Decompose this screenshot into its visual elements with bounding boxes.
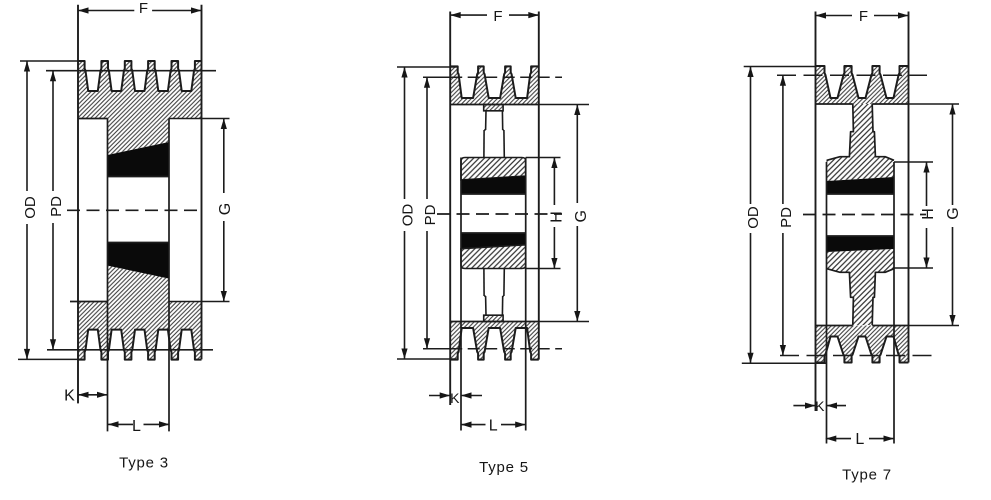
svg-text:K: K [815,398,825,414]
Type 3 PD line bottom [47,349,213,351]
Type 5 OD extension top [397,66,457,68]
svg-text:K: K [450,390,460,406]
svg-text:G: G [573,210,590,222]
dimension K (Type 7) [793,405,815,407]
Type 7 taper bush lower (black) [827,236,895,252]
dimension H (Type 5) [526,157,561,159]
svg-text:PD: PD [778,207,795,228]
Type 3 hub hatch above taper bush [108,119,170,156]
pulley Type 7 rim and grooves (top) [816,66,909,104]
svg-text:PD: PD [48,196,65,217]
Type 7 outline edges [815,12,817,412]
Type 3 taper bush lower half (black) [108,243,170,279]
Type 3 centerline [67,209,203,211]
Type 3 hub hatch below taper bush [108,266,170,302]
svg-text:Type 7: Type 7 [842,467,892,484]
svg-text:PD: PD [422,204,439,225]
dimension G (Type 3) [223,119,225,194]
Type 7 web and hub hatch (top) [827,104,895,181]
svg-text:H: H [549,211,566,223]
Type 5 centerline [437,213,562,215]
svg-text:L: L [855,431,864,448]
dimension L (Type 7) [826,438,851,440]
dimension PD (Type 3) [52,71,54,191]
Type 5 stub under rim [484,105,503,111]
dimension OD (Type 7) [750,67,752,205]
Type 5 hub hatch top [461,158,526,180]
pulley Type 3 rim and grooves (bottom) [78,302,202,360]
pulley Type 7 rim and grooves (bottom) [816,326,909,363]
svg-text:L: L [132,418,141,435]
Type 3 taper bush upper half (black) [108,142,170,177]
dimension G (Type 7) [909,103,960,105]
svg-text:H: H [920,208,937,220]
dimension OD (Type 5) [404,67,406,199]
dimension H (Type 7) [894,161,933,163]
Type 5 taper bush upper (black) [461,176,526,194]
dimension F (Type 3) [78,10,134,12]
Type 7 web and hub hatch (bottom) [827,249,895,325]
svg-text:OD: OD [22,196,39,219]
Type 5 outline edges [449,12,451,406]
Type 5 OD extension bottom [397,358,457,360]
Type 7 bore edges [827,193,895,195]
dimension PD (Type 7) [782,75,784,204]
Type 3 OD extension bottom [18,358,83,360]
svg-text:OD: OD [745,206,762,229]
pulley Type 5 rim and grooves (top) [450,66,539,104]
Type 3 OD extension top [20,60,84,62]
Type 7 OD extension bottom [742,362,827,364]
Type 5 stub above bottom rim [484,315,503,321]
svg-text:F: F [139,0,148,17]
svg-text:Type 3: Type 3 [119,455,169,472]
dimension F (Type 7) [816,15,853,17]
dimension G (Type 5) [539,104,589,106]
Type 5 PD line top [423,76,450,78]
dimension F (Type 5) [450,14,487,16]
Type 3 PD line top [46,70,216,72]
svg-text:G: G [217,203,234,215]
dimension OD (Type 3) [26,61,28,191]
svg-text:K: K [64,387,75,404]
Type 5 hub hatch bottom [461,245,526,269]
pulley Type 3 rim and grooves (top) [78,61,202,119]
Type 5 PD line bottom [423,348,450,350]
Type 5 taper bush lower (black) [461,233,526,249]
Type 7 OD extension top [744,66,816,68]
dimension L (Type 3) [108,423,133,425]
dimension PD (Type 5) [426,77,428,199]
Type 5 web (top, white) [485,111,487,130]
Type 7 taper bush upper (black) [827,177,895,194]
svg-text:L: L [489,418,498,435]
svg-text:G: G [945,207,962,219]
svg-text:F: F [493,8,502,25]
Type 7 PD line top [777,74,927,76]
svg-text:Type 5: Type 5 [479,459,529,476]
Type 5 bore edges [461,193,526,195]
dimension K (Type 3) [78,394,108,396]
Type 7 PD line bottom [780,355,936,357]
dimension K (Type 5) [429,395,450,397]
dimension L (Type 5) [461,424,486,426]
svg-text:OD: OD [399,204,416,227]
Type 3 outline edges [77,5,79,404]
Type 7 centerline [803,214,926,216]
pulley Type 5 rim and grooves (bottom) [450,322,539,360]
svg-text:F: F [859,8,868,25]
Type 5 web (bottom, white) [485,296,487,315]
